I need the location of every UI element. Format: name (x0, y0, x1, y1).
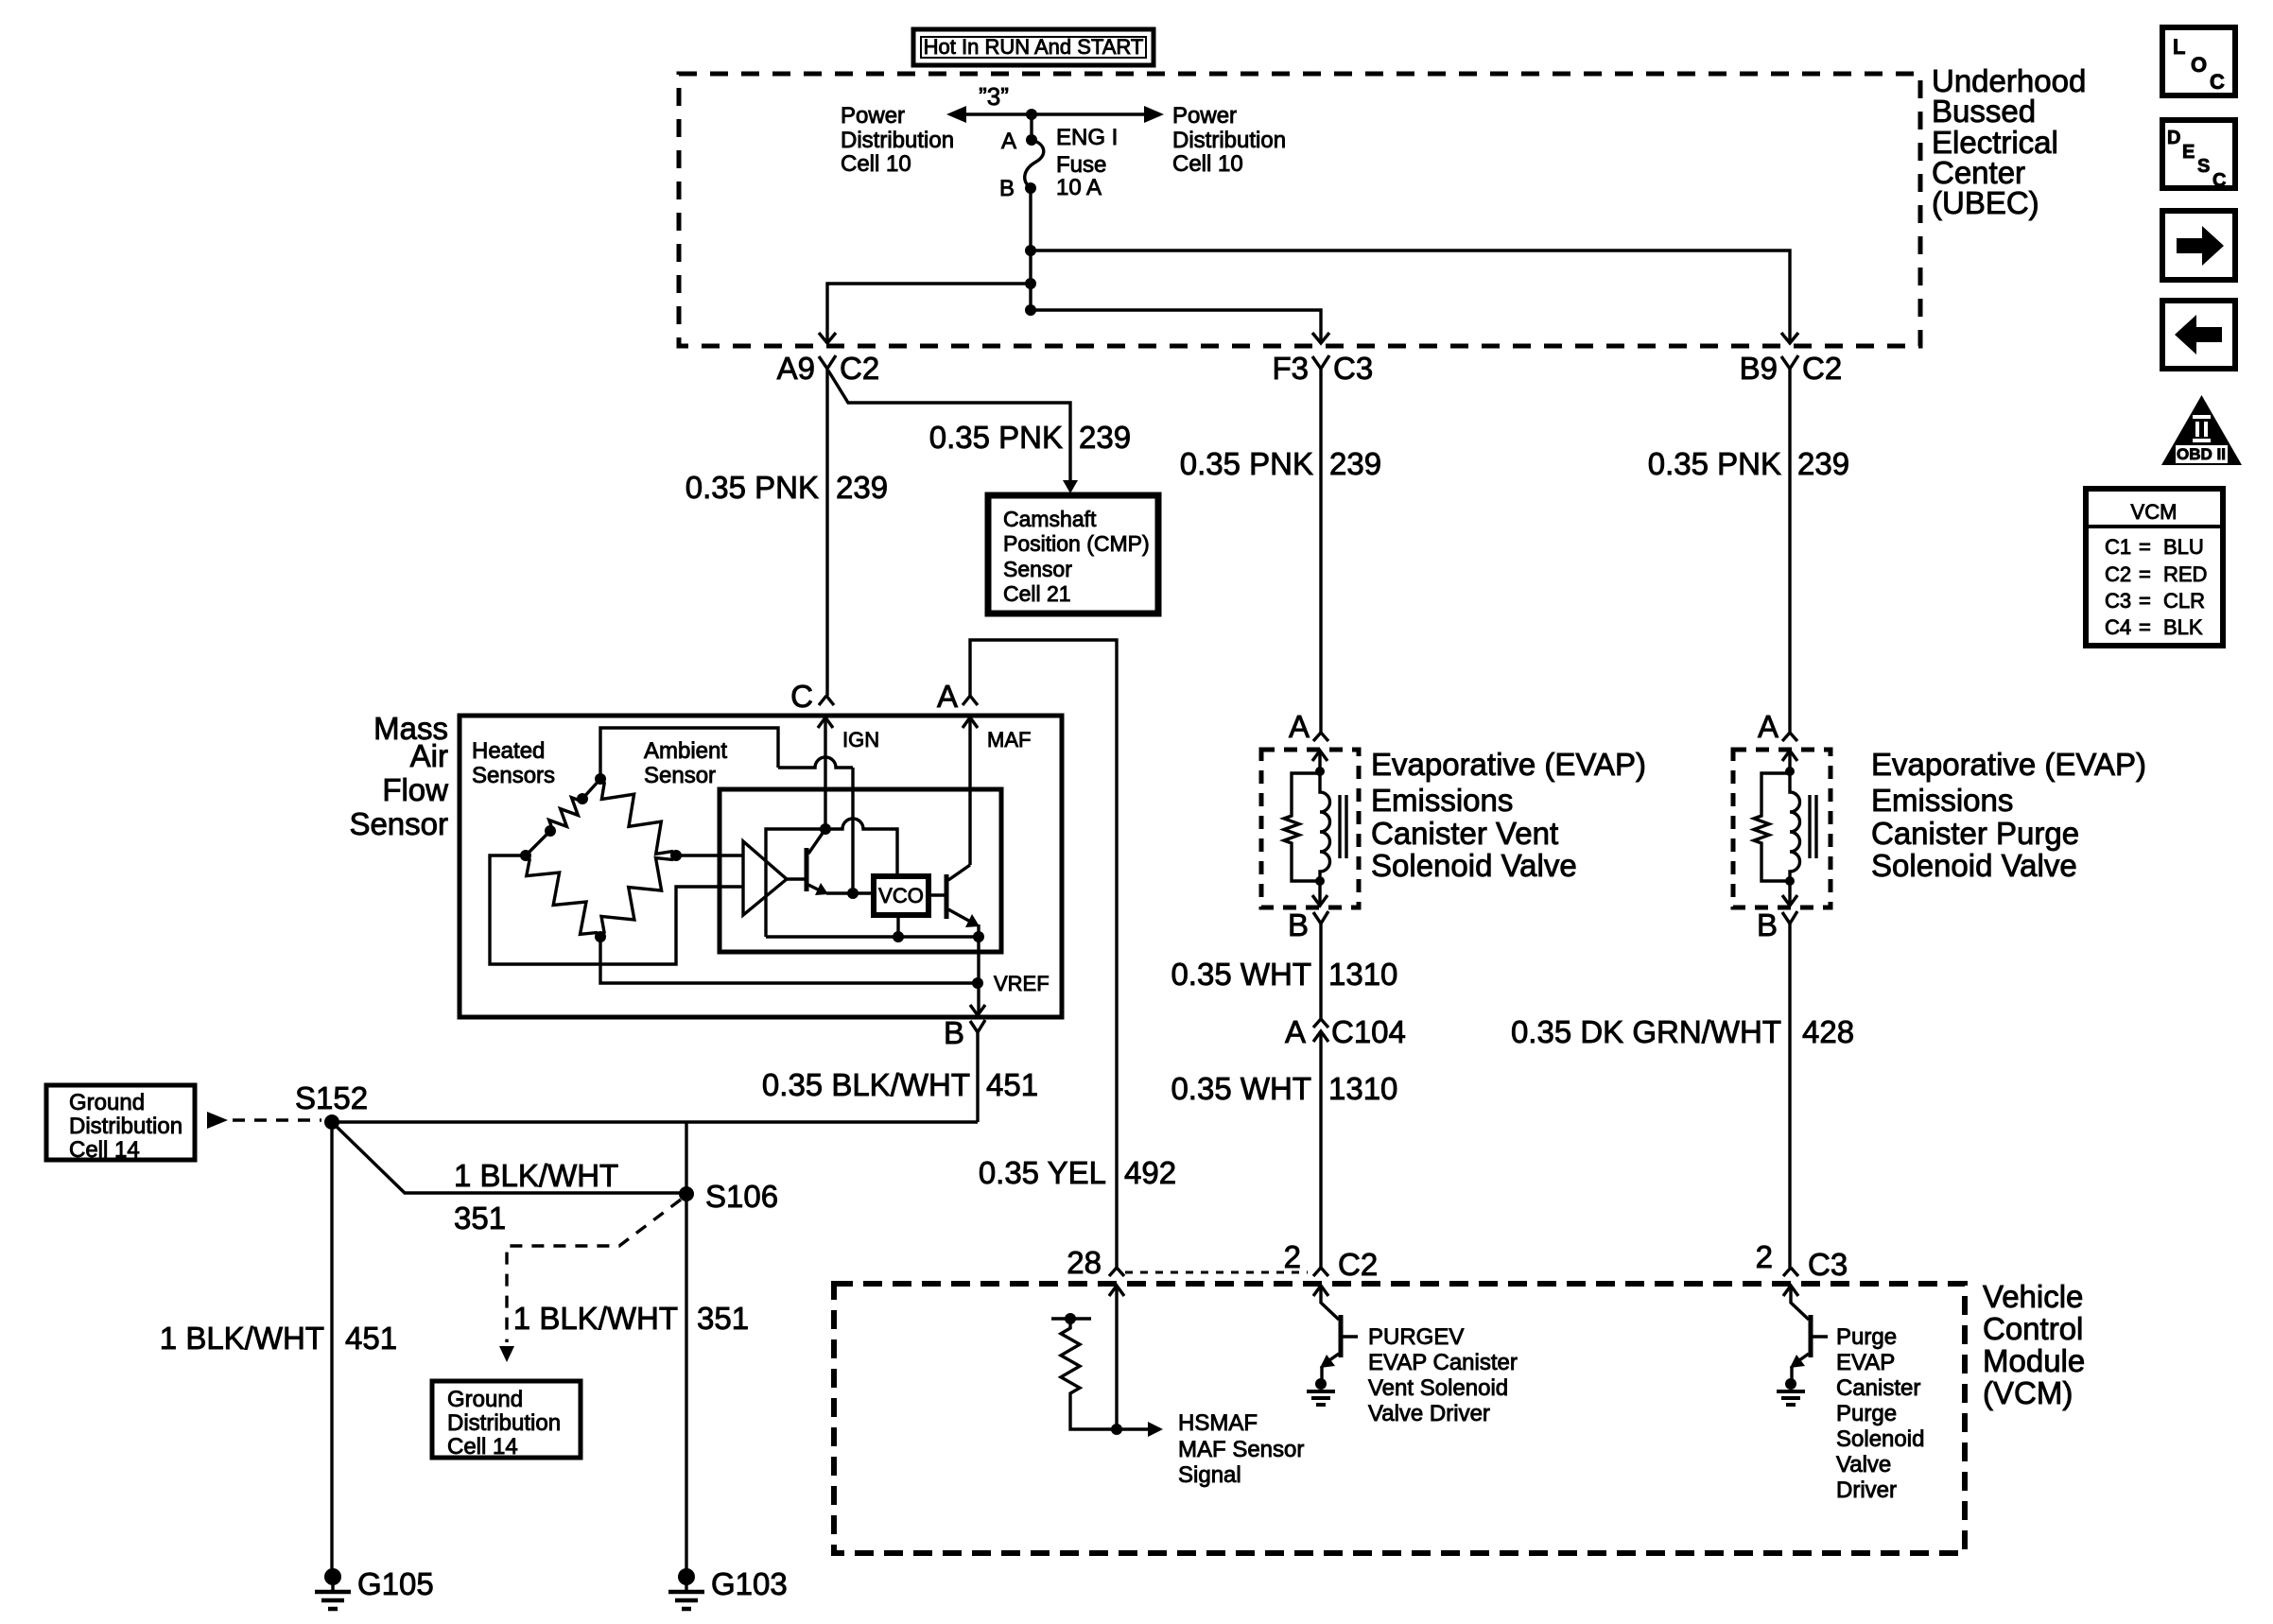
arrow pin 2 C2 into VCM (1313, 1286, 1328, 1296)
wire power distribution bus horizontal (951, 112, 1159, 115)
svg-text:Emissions: Emissions (1371, 783, 1513, 818)
svg-text:Cell 10: Cell 10 (1172, 151, 1243, 177)
junction Q2 emitter rail (973, 931, 984, 942)
svg-text:Driver: Driver (1836, 1477, 1897, 1503)
arrow out at F3 (1312, 333, 1329, 343)
resistor vent valve (1284, 814, 1299, 845)
svg-text:0.35 PNK: 0.35 PNK (1180, 446, 1313, 481)
svg-text:B9: B9 (1740, 351, 1778, 386)
label Evaporative (EVAP) Emissions Canister Vent Solenoid Valve (1371, 747, 1646, 883)
svg-text:C2: C2 (840, 351, 879, 386)
svg-text:C2: C2 (1802, 351, 1842, 386)
wire bus to fuse pin A (1030, 114, 1032, 140)
svg-text:Purge: Purge (1836, 1401, 1897, 1426)
wire IGN junction left to bottom rail (766, 829, 825, 937)
label 0.35 PNK 239 (CMP branch) (929, 420, 1131, 455)
VCM pin 2 C2 female symbol (1313, 1268, 1328, 1276)
svg-text:0.35 WHT: 0.35 WHT (1171, 957, 1311, 992)
svg-text:428: 428 (1802, 1014, 1854, 1049)
label Ambient Sensor (644, 738, 727, 788)
arrow pin B out of box (970, 1005, 985, 1015)
label Power Distribution Cell 10 (left) (841, 103, 954, 177)
svg-text:A: A (937, 679, 958, 714)
svg-text:1310: 1310 (1328, 957, 1397, 992)
svg-text:BLK: BLK (2163, 615, 2203, 639)
wire branch to A9 (827, 284, 1031, 343)
arrow pin A into purge valve (1782, 751, 1797, 761)
wire DK GRN/WHT 428 purge valve B to VCM pin 2 C3 (1788, 924, 1791, 1268)
label 0.35 PNK 239 (F3 wire) (1180, 446, 1381, 481)
svg-text:C: C (2212, 170, 2226, 191)
svg-text:451: 451 (345, 1321, 397, 1356)
svg-text:Air: Air (410, 738, 448, 773)
svg-text:IGN: IGN (842, 728, 879, 752)
icon right-arrow box (2162, 211, 2235, 280)
svg-text:239: 239 (1329, 446, 1381, 481)
transistor Q1 collector (808, 829, 825, 854)
transistor Q1 base bar (805, 848, 809, 891)
splice S106 (679, 1186, 694, 1201)
legend table VCM connector colors (2086, 489, 2223, 646)
svg-text:10 A: 10 A (1056, 175, 1102, 200)
inner amplifier module box (720, 789, 1001, 952)
label Evaporative (EVAP) Emissions Canister Purge Solenoid Valve (1871, 747, 2146, 883)
icon DESC box (2162, 120, 2235, 191)
wire arrow to HSMAF label (1117, 1427, 1152, 1430)
wire resistor to left node (526, 831, 550, 855)
connector face dashed line pins 28-2 (1125, 1271, 1308, 1274)
svg-text:F3: F3 (1272, 351, 1309, 386)
svg-text:Canister: Canister (1836, 1375, 1920, 1401)
svg-text:Sensor: Sensor (1003, 557, 1072, 581)
wire branch to F3 (1031, 310, 1321, 343)
junction vent valve top (1315, 767, 1325, 776)
svg-text:Canister Purge: Canister Purge (1871, 816, 2079, 851)
svg-text:=: = (2139, 589, 2151, 613)
wire S152 down to G105 (330, 1122, 333, 1573)
EVAP canister purge solenoid valve dashed box (1733, 750, 1831, 907)
svg-text:Ambient: Ambient (644, 738, 727, 764)
wire emitter to ground (purge driver) (1790, 1366, 1793, 1382)
svg-text:OBD II: OBD II (2177, 445, 2226, 463)
wire MAF signal inside VCM (1115, 1286, 1118, 1429)
connector C104 terminal A double symbol (1313, 1019, 1328, 1028)
pull-up resistor top dot (1065, 1313, 1076, 1324)
bridge resistor lower-left arm (526, 855, 600, 937)
svg-text:Solenoid Valve: Solenoid Valve (1371, 848, 1577, 883)
svg-text:RED: RED (2163, 562, 2207, 586)
svg-text:Cell 14: Cell 14 (69, 1137, 140, 1163)
svg-text:Valve Driver: Valve Driver (1368, 1401, 1490, 1426)
wire Q1 emitter line to VCO (826, 891, 874, 894)
label 0.35 WHT 1310 (upper) (1171, 957, 1397, 992)
connector pin C female symbol (819, 696, 834, 705)
svg-text:C3: C3 (2105, 589, 2131, 613)
wire WHT 1310 from vent valve B to C104 (1319, 924, 1322, 1019)
svg-text:Bussed: Bussed (1932, 94, 2036, 129)
svg-text:EVAP: EVAP (1836, 1350, 1895, 1375)
svg-text:=: = (2139, 535, 2151, 559)
wire resistor to signal node (1070, 1396, 1117, 1429)
ambient sensor resistor (top-right arm) (600, 779, 676, 855)
svg-text:HSMAF: HSMAF (1178, 1410, 1258, 1436)
label Heated Sensors (472, 738, 555, 788)
arrow into ground distribution box 2 (499, 1346, 514, 1362)
label 1 BLK/WHT 451 (160, 1321, 397, 1356)
svg-text:0.35 WHT: 0.35 WHT (1171, 1071, 1311, 1106)
svg-text:0.35 PNK: 0.35 PNK (685, 470, 819, 505)
coil core lines vent valve (1340, 795, 1346, 858)
svg-text:Heated: Heated (472, 738, 545, 764)
svg-text:2: 2 (1756, 1239, 1773, 1274)
svg-text:Ground: Ground (69, 1090, 145, 1115)
UBEC dashed box (Underhood Bussed Electrical Center) (679, 74, 1920, 346)
wire emitter to ground (1320, 1366, 1323, 1382)
svg-text:Vehicle: Vehicle (1983, 1279, 2083, 1314)
svg-text:S106: S106 (705, 1179, 778, 1214)
svg-text:Evaporative (EVAP): Evaporative (EVAP) (1371, 747, 1646, 782)
svg-text:Control: Control (1983, 1311, 2083, 1346)
svg-text:1 BLK/WHT: 1 BLK/WHT (454, 1158, 618, 1193)
VCO box (874, 876, 928, 915)
connector pin B female symbol (vent valve) (1313, 911, 1328, 924)
svg-text:Module: Module (1983, 1343, 2085, 1378)
svg-text:Cell 14: Cell 14 (447, 1434, 518, 1460)
solenoid coil purge valve (1790, 771, 1800, 881)
wire WHT 1310 from C104 to VCM pin 2 (1319, 1031, 1322, 1268)
wire MAF vertical inside (Q2 collector feed) (968, 717, 971, 865)
svg-text:B: B (1757, 907, 1778, 942)
ground G105 (315, 1568, 351, 1609)
svg-text:Position (CMP): Position (CMP) (1003, 531, 1150, 556)
svg-text:O: O (2191, 53, 2207, 77)
bridge node left (520, 850, 531, 861)
junction HSMAF node (1111, 1424, 1122, 1435)
label HSMAF MAF Sensor Signal (1178, 1410, 1304, 1488)
svg-text:Distribution: Distribution (841, 128, 954, 153)
label 1 BLK/WHT 351 (S106 wire) (513, 1301, 749, 1336)
svg-text:239: 239 (1797, 446, 1849, 481)
label 0.35 PNK 239 (B9 wire) (1648, 446, 1849, 481)
MAF sensor outer box (460, 716, 1062, 1017)
svg-text:B: B (999, 176, 1015, 201)
svg-text:Flow: Flow (382, 772, 448, 807)
junction purge valve top (1785, 767, 1795, 776)
VCM pin 2 C3 female symbol (1783, 1268, 1798, 1276)
svg-text:C1: C1 (2105, 535, 2131, 559)
coil core lines purge valve (1810, 795, 1816, 858)
bridge node bottom (595, 931, 606, 942)
svg-text:Distribution: Distribution (1172, 128, 1286, 153)
label 0.35 YEL 492 (979, 1155, 1176, 1190)
ground symbol (PURGEV driver) (1307, 1378, 1335, 1405)
svg-text:B: B (1288, 907, 1309, 942)
EVAP vent valve pin A female symbol (1313, 733, 1328, 741)
svg-text:0.35 BLK/WHT: 0.35 BLK/WHT (762, 1067, 970, 1102)
svg-text:Emissions: Emissions (1871, 783, 2013, 818)
dashed wire S106 to ground distribution (cell 14) (507, 1200, 681, 1342)
junction to F3 branch (1025, 304, 1036, 316)
svg-text:VCM: VCM (2131, 500, 2178, 524)
svg-text:Hot In RUN And START: Hot In RUN And START (924, 35, 1144, 59)
arrow out at A9 (819, 333, 836, 343)
svg-text:Cell 10: Cell 10 (841, 151, 911, 177)
svg-text:A: A (1285, 1014, 1306, 1049)
wire VCO bottom to rail (896, 915, 899, 937)
label 0.35 PNK 239 (left wire) (685, 470, 888, 505)
svg-text:Solenoid Valve: Solenoid Valve (1871, 848, 2077, 883)
svg-text:A: A (1758, 709, 1778, 744)
wire to purge valve resistor (1761, 773, 1790, 814)
wire amp output to Q1 base (787, 877, 807, 880)
connector pin B female symbol (970, 1020, 985, 1032)
icon LOC box (2162, 27, 2235, 95)
wire Q2 emitter down through VREF to pin B (977, 924, 980, 1013)
wire hop over IGN (feedback rail) (778, 757, 853, 768)
svg-text:Fuse: Fuse (1056, 152, 1106, 178)
arrow MAF pin into box (963, 717, 978, 728)
svg-text:Cell 21: Cell 21 (1003, 581, 1071, 606)
svg-text:Vent Solenoid: Vent Solenoid (1368, 1375, 1508, 1401)
svg-text:Camshaft: Camshaft (1003, 507, 1097, 531)
wire resistor to bottom junction (purge) (1761, 845, 1790, 881)
arrow to power distribution left (946, 106, 966, 123)
VCM pin 28 female symbol (1109, 1268, 1124, 1276)
fuse ENG I 10A element (1025, 140, 1044, 188)
svg-text:A9: A9 (777, 351, 815, 386)
wire branch A9 to CMP sensor (828, 371, 1070, 489)
svg-text:351: 351 (697, 1301, 749, 1336)
svg-text:Valve: Valve (1836, 1452, 1891, 1477)
label 0.35 WHT 1310 (lower) (1171, 1071, 1397, 1106)
ground G103 (668, 1568, 704, 1609)
heated sensor resistor (small zigzag) (549, 798, 582, 831)
svg-text:MAF: MAF (987, 728, 1031, 752)
connector pin A female symbol (963, 696, 978, 705)
svg-text:C: C (790, 679, 813, 714)
transistor PURGEV emitter with arrow (1323, 1354, 1339, 1365)
svg-text:Ground: Ground (447, 1387, 523, 1412)
wire branch to B9 (1031, 251, 1790, 343)
arrow from ground distribution to S152 (207, 1112, 228, 1129)
arrow to power distribution right (1144, 106, 1164, 123)
CMP sensor reference box (988, 495, 1158, 613)
wire fuse B down (1029, 188, 1032, 310)
junction feedback / emitter line (847, 888, 859, 899)
svg-text:Power: Power (1172, 103, 1237, 129)
svg-text:G105: G105 (357, 1566, 434, 1601)
icon OBD II triangle (2161, 395, 2242, 465)
transistor PURGEV base stub (1341, 1335, 1358, 1338)
svg-text:PURGEV: PURGEV (1368, 1324, 1464, 1350)
wire BLK/WHT 451 from pin B (976, 1032, 979, 1122)
transistor purge driver emitter with arrow (1793, 1354, 1809, 1365)
connector C2 terminal A9 female symbol (819, 355, 836, 369)
svg-text:1 BLK/WHT: 1 BLK/WHT (160, 1321, 324, 1356)
label 0.35 BLK/WHT 451 (762, 1067, 1038, 1102)
label Power Distribution Cell 10 (right) (1172, 103, 1286, 177)
wire S152 diagonal to S106 (1 BLK/WHT 351) (334, 1124, 686, 1193)
label Vehicle Control Module (VCM) (1983, 1279, 2085, 1410)
transistor Q2 base bar (945, 874, 949, 919)
svg-text:C4: C4 (2105, 615, 2131, 639)
svg-text:A: A (1001, 129, 1016, 154)
wire S152 to MAF ground (BLK/WHT 451 horizontal) (332, 1120, 978, 1123)
wire top rail to S106 to G103 (685, 1122, 687, 1573)
transistor Q1 emitter with arrow (808, 885, 824, 892)
svg-text:VCO: VCO (878, 884, 924, 907)
wire PNK 239 from F3 to EVAP vent valve (1319, 369, 1322, 733)
junction to B9 branch (1025, 245, 1036, 256)
svg-text:492: 492 (1124, 1155, 1176, 1190)
svg-text:(VCM): (VCM) (1983, 1375, 2073, 1410)
svg-text:C2: C2 (2105, 562, 2131, 586)
EVAP canister vent solenoid valve dashed box (1261, 750, 1359, 907)
svg-text:G103: G103 (711, 1566, 788, 1601)
svg-text:351: 351 (454, 1201, 506, 1235)
splice S152 (324, 1114, 339, 1130)
EVAP purge valve pin A female symbol (1782, 733, 1797, 741)
svg-text:451: 451 (986, 1067, 1038, 1102)
junction VCO bottom rail (893, 931, 904, 942)
wire top node to heated resistor (582, 779, 600, 799)
transistor Q2 emitter with arrow (948, 909, 974, 924)
wire IGN vertical inside MAF (824, 717, 826, 829)
junction purge valve bottom (1785, 876, 1795, 886)
icon left-arrow box (2162, 301, 2235, 369)
bottom rail inside module (766, 935, 979, 938)
heated resistor end dots (577, 793, 588, 804)
transistor purge driver collector wire (1791, 1286, 1809, 1320)
svg-text:E: E (2182, 142, 2195, 163)
arrow out at B9 (1781, 333, 1798, 343)
svg-text:Sensor: Sensor (349, 806, 448, 841)
svg-text:0.35 DK GRN/WHT: 0.35 DK GRN/WHT (1511, 1014, 1781, 1049)
svg-text:C: C (2210, 70, 2225, 94)
wire PNK 239 from B9 to EVAP purge valve (1788, 369, 1791, 733)
svg-text:(UBEC): (UBEC) (1932, 185, 2039, 220)
reference box Ground Distribution Cell 14 (left) (46, 1085, 195, 1163)
arrow pin A into vent valve (1312, 751, 1327, 761)
label Purge EVAP Canister Purge Solenoid Valve Driver (1836, 1324, 1924, 1503)
fuse pin B junction (1025, 182, 1036, 194)
transistor PURGEV base bar (1339, 1315, 1344, 1357)
arrow IGN pin into box (818, 717, 833, 728)
wire bridge top node to feedback rail (600, 728, 778, 779)
wire bottom node to VREF (600, 937, 978, 983)
junction bus to fuse (1026, 109, 1037, 120)
connector pin B female symbol (purge valve) (1782, 911, 1797, 924)
bridge node right (670, 850, 682, 861)
svg-text:1 BLK/WHT: 1 BLK/WHT (513, 1301, 678, 1336)
svg-text:28: 28 (1067, 1245, 1102, 1280)
junction IGN / Q1 collector (820, 823, 831, 835)
svg-text:S: S (2197, 156, 2210, 177)
power source header box "Hot In RUN And START" (913, 29, 1154, 65)
VREF junction (972, 977, 983, 989)
label Mass Air Flow Sensor (349, 711, 448, 841)
svg-text:MAF Sensor: MAF Sensor (1178, 1437, 1304, 1462)
pull-up resistor top bar (1051, 1317, 1091, 1320)
bridge node top (595, 773, 606, 785)
svg-text:2: 2 (1284, 1239, 1301, 1274)
transistor purge driver base stub (1811, 1335, 1828, 1338)
reference box Ground Distribution Cell 14 (lower) (432, 1381, 581, 1460)
svg-text:Canister Vent: Canister Vent (1371, 816, 1558, 851)
svg-text:0.35 YEL: 0.35 YEL (979, 1155, 1106, 1190)
svg-text:BLU: BLU (2163, 535, 2204, 559)
arrow pin 2 C3 into VCM (1783, 1286, 1798, 1296)
svg-text:”3”: ”3” (979, 82, 1009, 111)
svg-text:A: A (1289, 709, 1310, 744)
wire YEL 492 MAF pin A to VCM pin 28 (970, 640, 1117, 1268)
solenoid coil vent valve (1320, 771, 1330, 881)
arrow pin B out of purge valve (1788, 881, 1791, 906)
wire left node loop to amplifier lower input (490, 855, 743, 964)
wire resistor to bottom junction (1292, 845, 1320, 881)
label Underhood Bussed Electrical Center (UBEC) (1932, 63, 2086, 220)
wire feedback rail down to emitter line (851, 768, 854, 893)
connector C2 terminal B9 female symbol (1781, 355, 1798, 369)
svg-text:EVAP Canister: EVAP Canister (1368, 1350, 1518, 1375)
svg-text:B: B (944, 1015, 964, 1050)
wire VCO to Q2 base (928, 893, 946, 896)
svg-text:239: 239 (836, 470, 888, 505)
op-amp buffer triangle (743, 841, 787, 915)
svg-text:Sensor: Sensor (644, 763, 716, 788)
svg-text:C2: C2 (1338, 1247, 1378, 1282)
svg-text:Solenoid: Solenoid (1836, 1426, 1924, 1452)
arrow into CMP box (1063, 480, 1078, 493)
transistor Q2 collector (948, 865, 970, 880)
junction vent valve bottom (1315, 876, 1325, 886)
svg-text:D: D (2167, 128, 2180, 148)
label ENG I Fuse 10 A (1056, 125, 1118, 200)
svg-text:C3: C3 (1333, 351, 1373, 386)
svg-text:=: = (2139, 615, 2151, 639)
svg-text:Signal: Signal (1178, 1462, 1241, 1488)
svg-text:Evaporative (EVAP): Evaporative (EVAP) (1871, 747, 2146, 782)
arrow pin B out of vent valve (1318, 881, 1321, 906)
dashed wire to S152 (233, 1118, 321, 1121)
svg-text:CLR: CLR (2163, 589, 2205, 613)
svg-text:239: 239 (1079, 420, 1131, 455)
label PURGEV EVAP Canister Vent Solenoid Valve Driver (1368, 1324, 1518, 1426)
fuse F1 ENG I pin A junction (1026, 134, 1037, 146)
bridge resistor lower-right arm (600, 855, 676, 937)
label 0.35 DK GRN/WHT 428 (1511, 1014, 1854, 1049)
svg-text:S152: S152 (295, 1080, 368, 1115)
arrow pin 28 into VCM (1109, 1286, 1124, 1296)
svg-text:Sensors: Sensors (472, 763, 555, 788)
svg-text:0.35 PNK: 0.35 PNK (929, 420, 1063, 455)
wire right node to amplifier input (676, 854, 743, 856)
wire PNK 239 from A9 to MAF pin C (825, 369, 828, 696)
ground symbol (purge driver) (1777, 1378, 1805, 1405)
svg-text:L: L (2173, 35, 2185, 59)
transistor PURGEV driver collector wire (1321, 1286, 1339, 1320)
svg-text:Distribution: Distribution (69, 1114, 182, 1139)
svg-text:0.35 PNK: 0.35 PNK (1648, 446, 1781, 481)
svg-text:VREF: VREF (994, 972, 1050, 995)
svg-text:C104: C104 (1331, 1014, 1406, 1049)
svg-text:1310: 1310 (1328, 1071, 1397, 1106)
junction to A9 branch (1025, 278, 1036, 289)
resistor R (VCM input) (1061, 1319, 1080, 1396)
wire to vent valve resistor (1292, 773, 1320, 814)
svg-text:Distribution: Distribution (447, 1410, 561, 1436)
svg-text:Power: Power (841, 103, 905, 129)
